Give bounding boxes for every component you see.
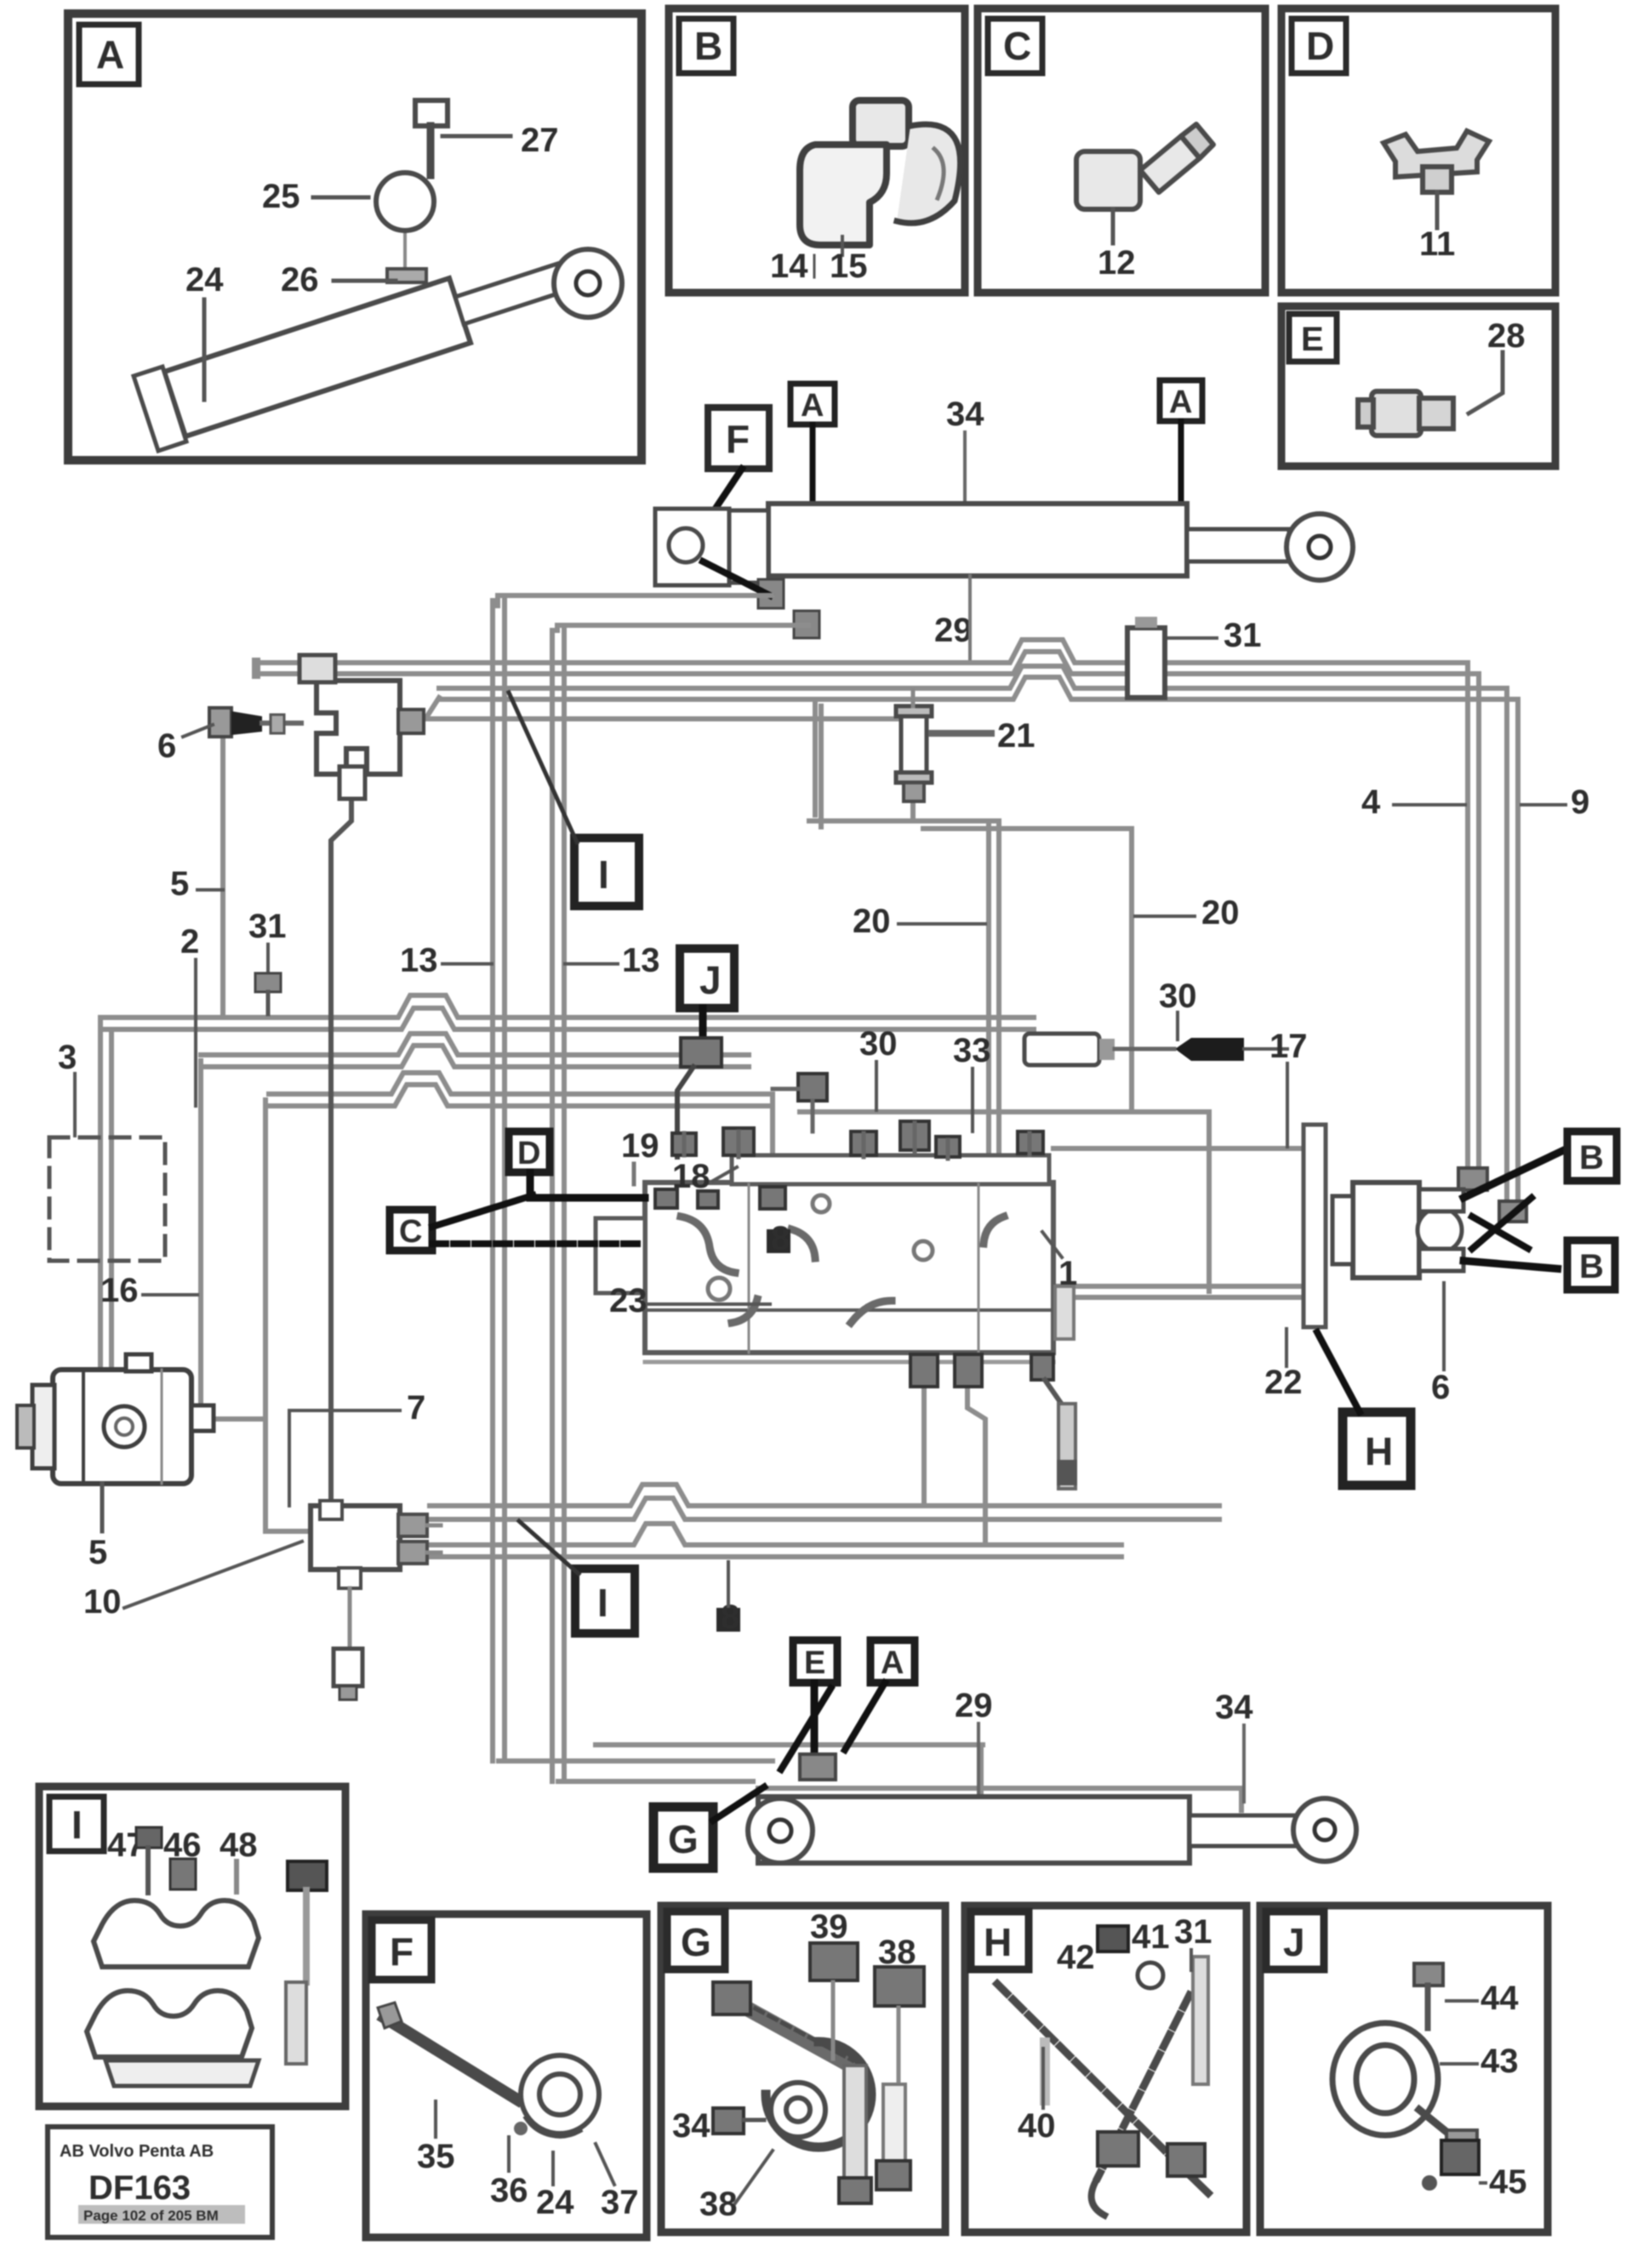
svg-text:38: 38	[878, 1934, 916, 1971]
svg-text:13: 13	[400, 942, 438, 979]
sleeve item (panel I right)	[286, 1982, 306, 2064]
left drop of L3 to fitting block	[263, 1100, 268, 1531]
hose block to bracket (upper)	[1053, 1146, 1304, 1151]
svg-text:H: H	[1365, 1429, 1393, 1473]
label 30 (upper right)	[1159, 977, 1197, 1040]
attachment coupling body	[1332, 1182, 1463, 1278]
svg-text:4: 4	[1361, 784, 1381, 821]
boxed letter A callout (right, above cylinder)	[1160, 380, 1202, 421]
black union fitting (30 pointer target)	[1175, 1038, 1287, 1061]
bottom elbow of hose 13 left	[499, 1758, 773, 1764]
hose port fitting at cylinder barrel (left)	[758, 579, 784, 608]
hose from cylinder port to vertical 13 (left)	[498, 595, 772, 606]
small inline cylinder part (33 area)	[1024, 1034, 1174, 1065]
boxed letter A callout (left, above cylinder)	[790, 384, 835, 425]
hose H3 from valve to part 21	[430, 716, 901, 721]
label 25	[262, 178, 300, 215]
fitting at end of hose 9	[1499, 1201, 1526, 1222]
panel F frame	[366, 1914, 647, 2237]
item 26 pointer	[334, 279, 396, 283]
hose run L3	[269, 1073, 773, 1106]
nut item 45	[1422, 2140, 1479, 2191]
chain from H box to bracket	[1317, 1332, 1360, 1412]
label 41	[1132, 1918, 1170, 1956]
svg-text:29: 29	[955, 1687, 993, 1724]
label 10	[83, 1541, 302, 1621]
svg-text:21: 21	[997, 717, 1036, 755]
label 38 (upper)	[878, 1934, 916, 2081]
hose block to bracket (lower)	[1053, 1286, 1304, 1297]
title block text row 1	[60, 2142, 214, 2161]
svg-text:24: 24	[536, 2184, 574, 2221]
clamp ring item 43 in panel J	[1332, 2023, 1477, 2164]
svg-text:A: A	[881, 1645, 904, 1681]
svg-text:35: 35	[417, 2138, 455, 2175]
label 37	[596, 2144, 639, 2221]
label 48	[220, 1826, 258, 1892]
label 29 (upper cylinder hose)	[934, 576, 973, 663]
boxed letter D callout with chain	[509, 1131, 550, 1172]
clamp half (lower) item 46	[87, 1991, 252, 2057]
panel B letter box	[679, 19, 733, 73]
elbow fitting item 12 in panel C	[1076, 124, 1213, 243]
fitting at end of hose 4	[1458, 1168, 1487, 1190]
panel J letter box	[1266, 1912, 1324, 1969]
right vertical hose (item 9)	[1507, 688, 1518, 1201]
panel A frame	[68, 14, 642, 460]
label 6 (right)	[1431, 1283, 1450, 1406]
boxed letter B (right edge upper)	[1567, 1131, 1617, 1181]
panel H letter box	[971, 1912, 1029, 1969]
pointer from right A box to cylinder	[1178, 421, 1184, 504]
label 45	[1481, 2163, 1527, 2201]
drain fitting below block	[334, 1588, 362, 1700]
tilt cylinder (lower)	[748, 1797, 1356, 1863]
boxed letter H callout	[1343, 1412, 1411, 1485]
svg-text:10: 10	[83, 1583, 122, 1621]
label 8 (lower)	[716, 1562, 740, 1636]
crossed hoses in panel H	[997, 1957, 1208, 2215]
svg-text:31: 31	[1224, 617, 1262, 654]
elbow stubs above block	[684, 1123, 1030, 1159]
svg-text:40: 40	[1018, 2107, 1056, 2145]
svg-text:24: 24	[185, 261, 224, 299]
panel G letter box	[667, 1912, 725, 1969]
svg-text:A: A	[96, 32, 124, 77]
svg-text:G: G	[681, 1920, 711, 1964]
svg-text:F: F	[390, 1929, 414, 1974]
chain from C box (upper)	[432, 1194, 536, 1227]
block drop hose 2	[967, 1385, 985, 1545]
chain from C box (lower)	[432, 1240, 645, 1247]
svg-text:I: I	[597, 1581, 608, 1625]
svg-text:A: A	[801, 388, 824, 424]
panel C letter box	[988, 19, 1042, 73]
valve left port fitting (item 6)	[209, 708, 301, 737]
svg-text:J: J	[1283, 1920, 1305, 1964]
labels 14 15	[770, 248, 868, 285]
item 25 pointer	[313, 196, 368, 200]
label 8 (upper, on block)	[767, 1220, 790, 1257]
lift cylinder (upper), item 24/29	[655, 504, 1353, 585]
label 19	[621, 1127, 659, 1184]
fitting item 42 (dark bolt)	[1098, 1926, 1128, 1952]
panel D frame	[1281, 9, 1555, 293]
panel C frame	[978, 9, 1265, 293]
svg-text:5: 5	[170, 865, 189, 903]
nut item 48	[288, 1861, 327, 1982]
svg-text:30: 30	[1159, 977, 1197, 1015]
hose port fitting at cylinder barrel (second)	[794, 611, 819, 638]
label 4	[1361, 784, 1465, 821]
label 5 (hose pointer)	[170, 865, 223, 903]
hose 20 vertical (left)	[989, 821, 999, 1178]
svg-text:B: B	[694, 24, 722, 68]
label 9	[1521, 784, 1589, 821]
svg-text:F: F	[726, 417, 750, 461]
svg-text:28: 28	[1487, 317, 1526, 355]
fittings on top of valve block	[655, 1121, 1043, 1209]
boxed letter F (callout to panel F)	[708, 407, 769, 469]
svg-text:I: I	[598, 852, 609, 897]
label 27	[521, 122, 559, 159]
svg-text:34: 34	[946, 396, 984, 433]
svg-text:43: 43	[1481, 2043, 1519, 2080]
svg-text:A: A	[1169, 385, 1192, 420]
hose to right cluster (upper)	[800, 1112, 1209, 1291]
long vertical hose 13 (right)	[552, 630, 564, 1781]
item 27 bolt pointer	[442, 134, 511, 139]
svg-text:E: E	[1301, 321, 1324, 358]
label 47	[107, 1826, 145, 1864]
bolt item 41 (o-ring)	[1138, 1963, 1163, 1988]
svg-text:8: 8	[771, 1220, 790, 1257]
label 46	[163, 1826, 202, 1889]
svg-text:H: H	[984, 1920, 1012, 1964]
pump outlet stub	[213, 1416, 265, 1422]
part 21 (inline valve on hose)	[896, 691, 932, 801]
bottom elbow of hose 13 right	[558, 1779, 753, 1784]
title block frame	[48, 2127, 272, 2237]
svg-text:DF163: DF163	[88, 2169, 191, 2207]
svg-text:34: 34	[1215, 1689, 1253, 1726]
label 16	[100, 1272, 197, 1309]
svg-text:D: D	[1306, 24, 1334, 68]
svg-text:39: 39	[810, 1908, 848, 1946]
label 21 with stud pointer	[932, 717, 1036, 755]
label 29 (lower)	[955, 1687, 993, 1795]
svg-text:42: 42	[1057, 1939, 1095, 1976]
svg-text:33: 33	[953, 1032, 991, 1069]
tube assembly in panel G	[713, 1982, 910, 2203]
boxed letter G callout	[653, 1807, 713, 1868]
right vertical hose (item 4)	[1468, 663, 1479, 1168]
cross hose middle links	[1472, 1198, 1532, 1251]
fittings below valve block	[910, 1354, 1053, 1387]
label 44	[1446, 1980, 1519, 2017]
pointer from E box to cylinder port	[811, 1683, 819, 1754]
label 22	[1264, 1329, 1303, 1401]
svg-text:45: 45	[1489, 2163, 1527, 2201]
boxed letter A (above lower cylinder)	[870, 1640, 915, 1683]
svg-text:13: 13	[622, 942, 660, 979]
label 18	[672, 1158, 737, 1195]
label 31 (top area)	[1166, 617, 1262, 654]
svg-text:6: 6	[157, 727, 176, 765]
label 12	[1098, 244, 1136, 282]
boxed letter E (above lower cylinder)	[793, 1640, 837, 1683]
cylinder assembly in panel A (items 24-27)	[134, 100, 622, 451]
bolt item 47	[136, 1827, 162, 1893]
svg-text:C: C	[399, 1214, 422, 1250]
mounting bracket plate	[1304, 1125, 1326, 1327]
svg-text:41: 41	[1132, 1918, 1170, 1956]
svg-text:G: G	[668, 1817, 699, 1861]
hydraulic pump (bottom left)	[17, 1354, 214, 1484]
elbow unions on valve block face	[681, 1217, 1004, 1323]
pointer from lower I box to hoses	[519, 1521, 579, 1574]
svg-text:20: 20	[1201, 894, 1240, 932]
fitting item 38 (panel G right)	[875, 1967, 924, 2006]
label 36	[490, 2137, 528, 2209]
svg-text:26: 26	[281, 261, 319, 299]
svg-text:48: 48	[220, 1826, 258, 1864]
panel I letter box	[49, 1797, 104, 1851]
svg-text:38: 38	[699, 2185, 738, 2223]
dark return line from control valve	[331, 799, 351, 1501]
hose run W1 (item 8)	[430, 1484, 1219, 1519]
pump bottom stub	[100, 1484, 105, 1531]
svg-text:23: 23	[609, 1282, 648, 1319]
svg-text:2: 2	[180, 923, 199, 960]
label 2	[180, 923, 199, 1106]
label 13 (left)	[400, 942, 492, 979]
port fitting on lower cylinder	[800, 1754, 836, 1780]
svg-text:20: 20	[853, 903, 891, 940]
svg-text:14: 14	[770, 248, 808, 285]
svg-text:25: 25	[262, 178, 300, 215]
clamp lower plate	[106, 2060, 259, 2086]
block outlet stubs to hoses	[427, 1525, 441, 1553]
svg-text:36: 36	[490, 2172, 528, 2209]
label 17	[1269, 1028, 1308, 1147]
valve right port fitting	[398, 709, 424, 733]
pointer chain from A box to cylinder port	[842, 1683, 885, 1754]
bolt item 44 in panel J	[1414, 1963, 1443, 2028]
label 35	[417, 2101, 455, 2175]
svg-text:B: B	[1579, 1248, 1604, 1285]
svg-text:8: 8	[721, 1598, 739, 1636]
label 20 (right)	[1135, 894, 1240, 932]
hose run L2	[201, 1034, 749, 1067]
panel H frame	[965, 1906, 1247, 2232]
svg-text:AB Volvo Penta AB: AB Volvo Penta AB	[60, 2142, 214, 2161]
boxed letter B (right edge lower)	[1567, 1240, 1615, 1290]
hose run H2 (to right vertical, item 9)	[392, 666, 1518, 719]
left drop of L1 to pump	[100, 1017, 111, 1365]
svg-text:19: 19	[621, 1127, 659, 1165]
svg-text:30: 30	[859, 1025, 898, 1063]
rod end drop lower cylinder	[1239, 1788, 1244, 1810]
svg-text:11: 11	[1419, 225, 1455, 263]
hose 20 vertical (right)	[923, 829, 1132, 1112]
label 1	[1042, 1232, 1077, 1292]
hose run W2 (item 8 lower)	[430, 1524, 1121, 1557]
hose above lower cylinder (left)	[596, 1742, 983, 1747]
svg-text:D: D	[517, 1136, 540, 1171]
cross hose (upper) to boxed letter	[1463, 1150, 1564, 1198]
hose along lower cylinder top	[758, 1786, 1241, 1791]
svg-text:44: 44	[1481, 1980, 1519, 2017]
label 43	[1441, 2043, 1519, 2080]
inline fitting 31 overlay	[1127, 617, 1165, 698]
internal hose across valve block	[647, 1222, 1053, 1228]
label 28	[1469, 317, 1526, 413]
svg-text:37: 37	[601, 2184, 639, 2221]
svg-text:3: 3	[58, 1039, 77, 1076]
drop from fitting to block top	[770, 1099, 775, 1182]
hose run L1 (item 2)	[106, 995, 1034, 1029]
panel G frame	[661, 1906, 945, 2232]
label 34 (panel G)	[672, 2107, 764, 2145]
boxed letter J (clamp callout)	[680, 949, 734, 1008]
svg-text:E: E	[804, 1645, 825, 1681]
svg-text:B: B	[1579, 1139, 1604, 1177]
panel E letter box	[1289, 314, 1337, 362]
title block text row 2	[78, 2205, 245, 2224]
label 26	[281, 261, 319, 299]
hose run H1 (to right vertical, item 4)	[252, 640, 1479, 679]
panel I frame	[39, 1786, 345, 2106]
title block code DF163	[88, 2169, 191, 2207]
pointer from A box to cylinder	[810, 425, 816, 504]
dashed box (item 3, attachment)	[49, 1137, 165, 1261]
svg-text:C: C	[1003, 24, 1031, 68]
label 34 (lower)	[1215, 1689, 1253, 1802]
label 20 (left)	[853, 903, 985, 940]
panel D letter box	[1292, 19, 1346, 73]
svg-text:15: 15	[830, 248, 868, 285]
pointer hose clevis to port	[703, 561, 770, 595]
block drop hose 1	[921, 1385, 927, 1506]
port drop to lower cylinder	[978, 1745, 984, 1797]
svg-text:29: 29	[934, 612, 973, 649]
pin item 35 in panel F	[378, 2003, 517, 2100]
svg-text:17: 17	[1269, 1028, 1308, 1065]
label 3	[58, 1039, 77, 1136]
left drop of L2	[194, 1061, 201, 1412]
pointer from I box to hose 13	[509, 692, 577, 842]
label 24 (panel A)	[185, 261, 224, 400]
fitting item 39 (panel G top)	[810, 1943, 858, 1980]
label 42	[1057, 1939, 1095, 1976]
long vertical hose 13 (left)	[493, 601, 505, 1761]
label 24 (panel F)	[536, 2152, 574, 2221]
round bosses on valve block	[708, 1195, 933, 1300]
hose from cylinder port to vertical 13 (right)	[557, 625, 808, 630]
label 7	[289, 1389, 425, 1506]
svg-text:J: J	[699, 958, 722, 1002]
label 33	[953, 1032, 991, 1131]
svg-text:7: 7	[407, 1389, 425, 1427]
main valve block body (item 1)	[596, 1155, 1053, 1362]
svg-text:I: I	[71, 1803, 83, 1847]
svg-text:Page 102 of 205 BM: Page 102 of 205 BM	[83, 2208, 219, 2224]
hose elbow items 14,15 in panel B	[800, 100, 961, 255]
boxed letter I (hose clamp callout, upper)	[574, 838, 639, 906]
label 6 (left)	[157, 725, 213, 765]
cross hose (lower) to boxed letter	[1463, 1261, 1564, 1269]
inline fitting item 31 on hoses	[1127, 617, 1165, 698]
panel B frame	[669, 9, 965, 293]
fitting block left stub	[265, 1529, 306, 1534]
pointer chain from J box down to fitting	[699, 1008, 707, 1038]
svg-text:31: 31	[248, 908, 287, 945]
svg-text:34: 34	[672, 2107, 710, 2145]
svg-text:16: 16	[100, 1272, 139, 1309]
svg-text:9: 9	[1571, 784, 1589, 821]
svg-text:27: 27	[521, 122, 559, 159]
boxed letter I (lower occurrence)	[575, 1569, 635, 1633]
control valve (top-left of schematic)	[300, 655, 400, 799]
panel J frame	[1260, 1906, 1548, 2232]
panel A letter box	[79, 25, 139, 84]
label 38 (lower)	[699, 2151, 773, 2223]
fitting under J pointer (item 32)	[677, 1038, 722, 1157]
label 31 (panel H)	[1174, 1913, 1212, 1970]
boxed letter C callout with chains	[390, 1210, 432, 1251]
label 39	[810, 1908, 848, 2059]
clamp half (upper) item 46	[94, 1900, 259, 1967]
part 21 bottom elbow	[809, 699, 994, 827]
svg-text:22: 22	[1264, 1364, 1303, 1401]
fitting cluster feeding block top (center)	[773, 1074, 827, 1131]
chain from 13 hose elbow to cylinder	[781, 1686, 832, 1769]
nipple fitting item 28 in panel E	[1358, 391, 1453, 436]
svg-text:5: 5	[88, 1534, 107, 1571]
label 23	[609, 1282, 770, 1319]
label 31 with bolt item	[248, 908, 287, 1014]
panel E frame	[1281, 306, 1555, 466]
chain from G box to cylinder	[713, 1785, 767, 1821]
label 34 (top cylinder)	[946, 396, 984, 504]
label 30 (center)	[859, 1025, 898, 1110]
elbow and sleeve part below block right	[1045, 1380, 1077, 1489]
clamp rings items 36/24 in panel F	[514, 2055, 599, 2135]
spool spring detail right of block	[1055, 1286, 1074, 1339]
svg-text:31: 31	[1174, 1913, 1212, 1951]
pointer hose from F box to cylinder clevis	[713, 469, 742, 512]
label 40	[1018, 2049, 1056, 2145]
label 11	[1419, 225, 1455, 263]
chain from D box to block	[530, 1172, 645, 1198]
vertical from valve left fitting	[220, 733, 225, 1017]
fitting manifold block (item 7 area)	[311, 1501, 427, 1588]
label 5 (pump)	[88, 1534, 107, 1571]
panel F letter box	[372, 1920, 431, 1980]
banjo fitting item 11 in panel D	[1384, 131, 1489, 228]
label 13 (right)	[565, 942, 660, 979]
svg-text:6: 6	[1431, 1369, 1450, 1406]
svg-text:12: 12	[1098, 244, 1136, 282]
